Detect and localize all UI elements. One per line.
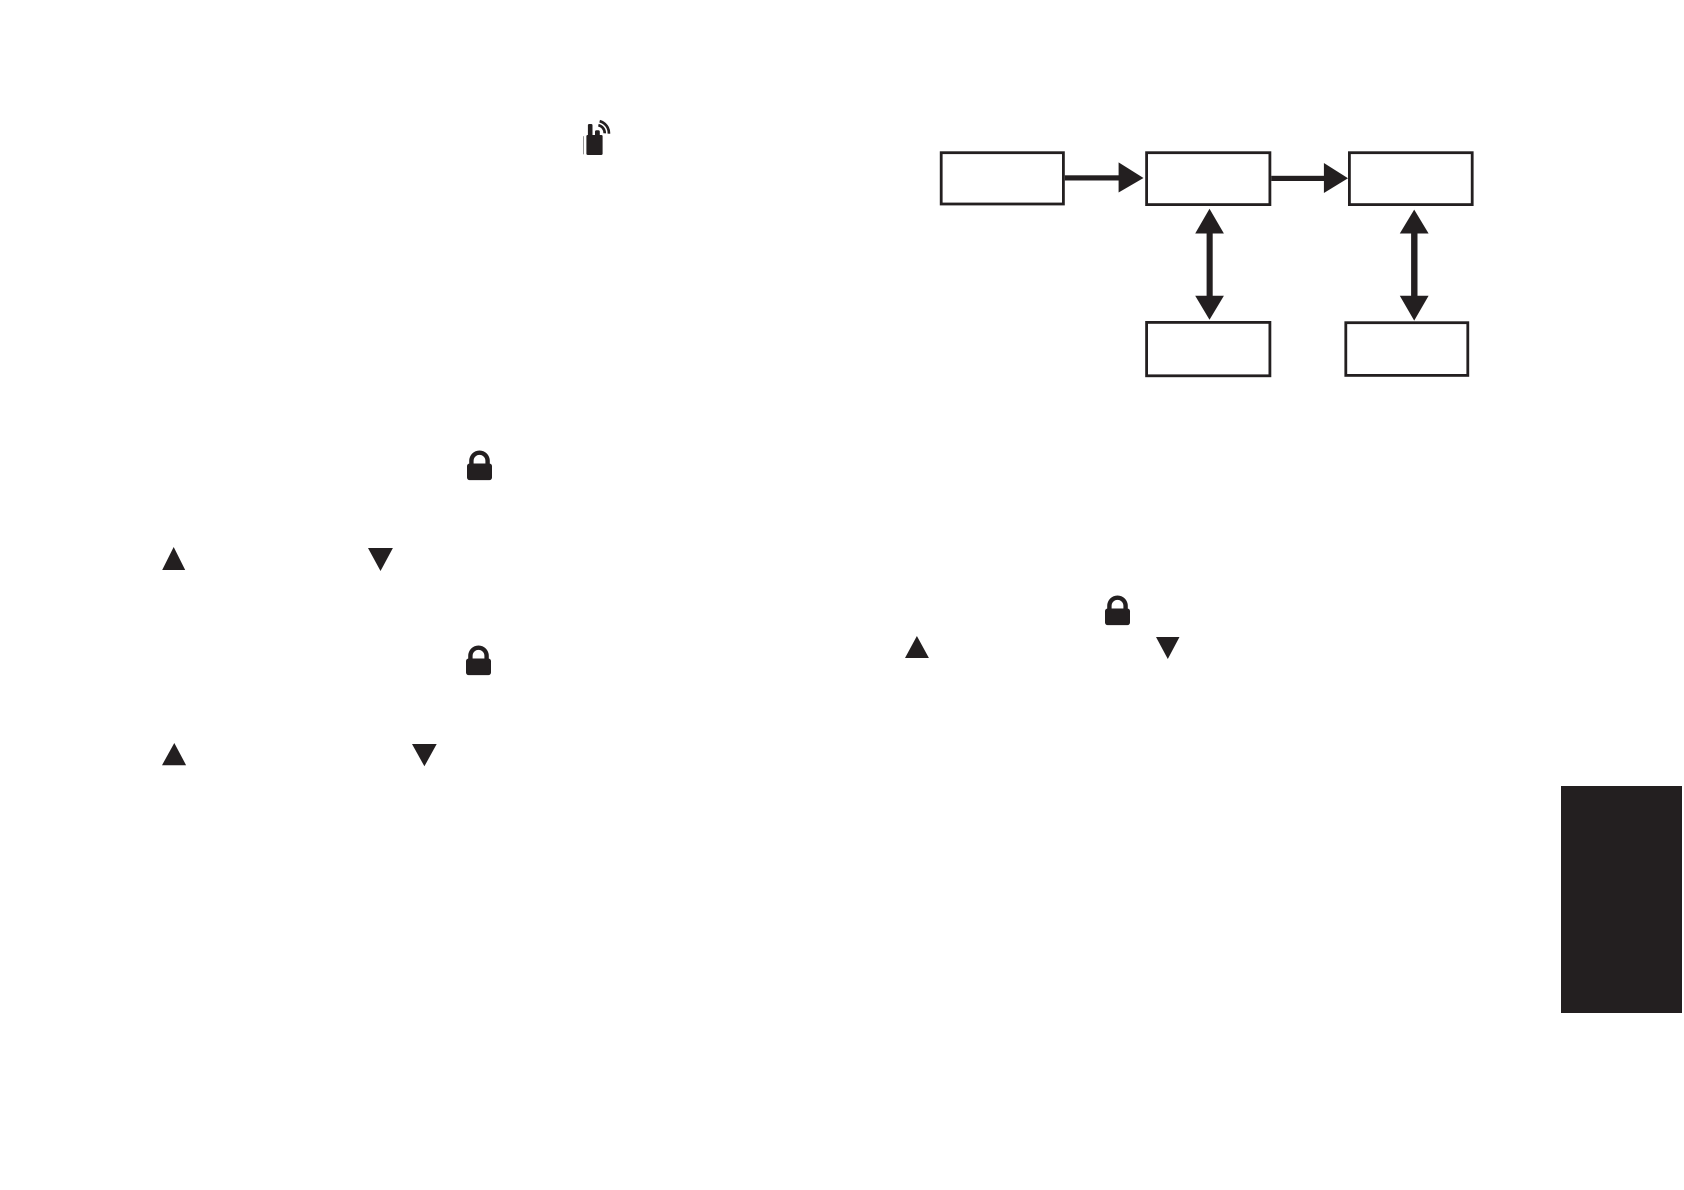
double arrow: box2 to box4 <box>1207 233 1213 296</box>
up triangle (row 2 left) <box>905 636 929 658</box>
lock icon 2 <box>466 645 492 676</box>
arrow 2: box2 to box3 <box>1271 176 1325 181</box>
up triangle (row 1 left) <box>162 547 186 570</box>
flowchart box 2 (top-middle) <box>1147 153 1270 205</box>
outer signal wave <box>600 121 609 133</box>
lock icon 1 <box>467 450 493 481</box>
inner signal wave <box>598 125 604 133</box>
radio handset icon with signal waves <box>578 112 618 162</box>
down triangle (row 2 right) <box>1156 637 1180 659</box>
arrow 1: box1 to box2 <box>1065 175 1120 180</box>
body <box>586 135 602 155</box>
up triangle (row 3 left) <box>162 743 187 766</box>
double arrow: box3 to box5 <box>1411 233 1417 296</box>
flowchart box 1 (top-left) <box>941 153 1063 204</box>
knob <box>595 130 600 136</box>
black sidebar tab <box>1561 786 1682 1013</box>
flowchart <box>930 145 1490 390</box>
flowchart box 5 (bottom-right) <box>1346 323 1468 376</box>
down triangle (row 3 right) <box>412 744 437 767</box>
antenna <box>588 124 593 137</box>
flowchart box 3 (top-right) <box>1349 153 1472 205</box>
down triangle (row 1 right) <box>368 548 393 571</box>
side hairline <box>582 136 585 154</box>
lock icon 3 <box>1105 595 1131 626</box>
flowchart box 4 (bottom-middle) <box>1147 322 1270 375</box>
